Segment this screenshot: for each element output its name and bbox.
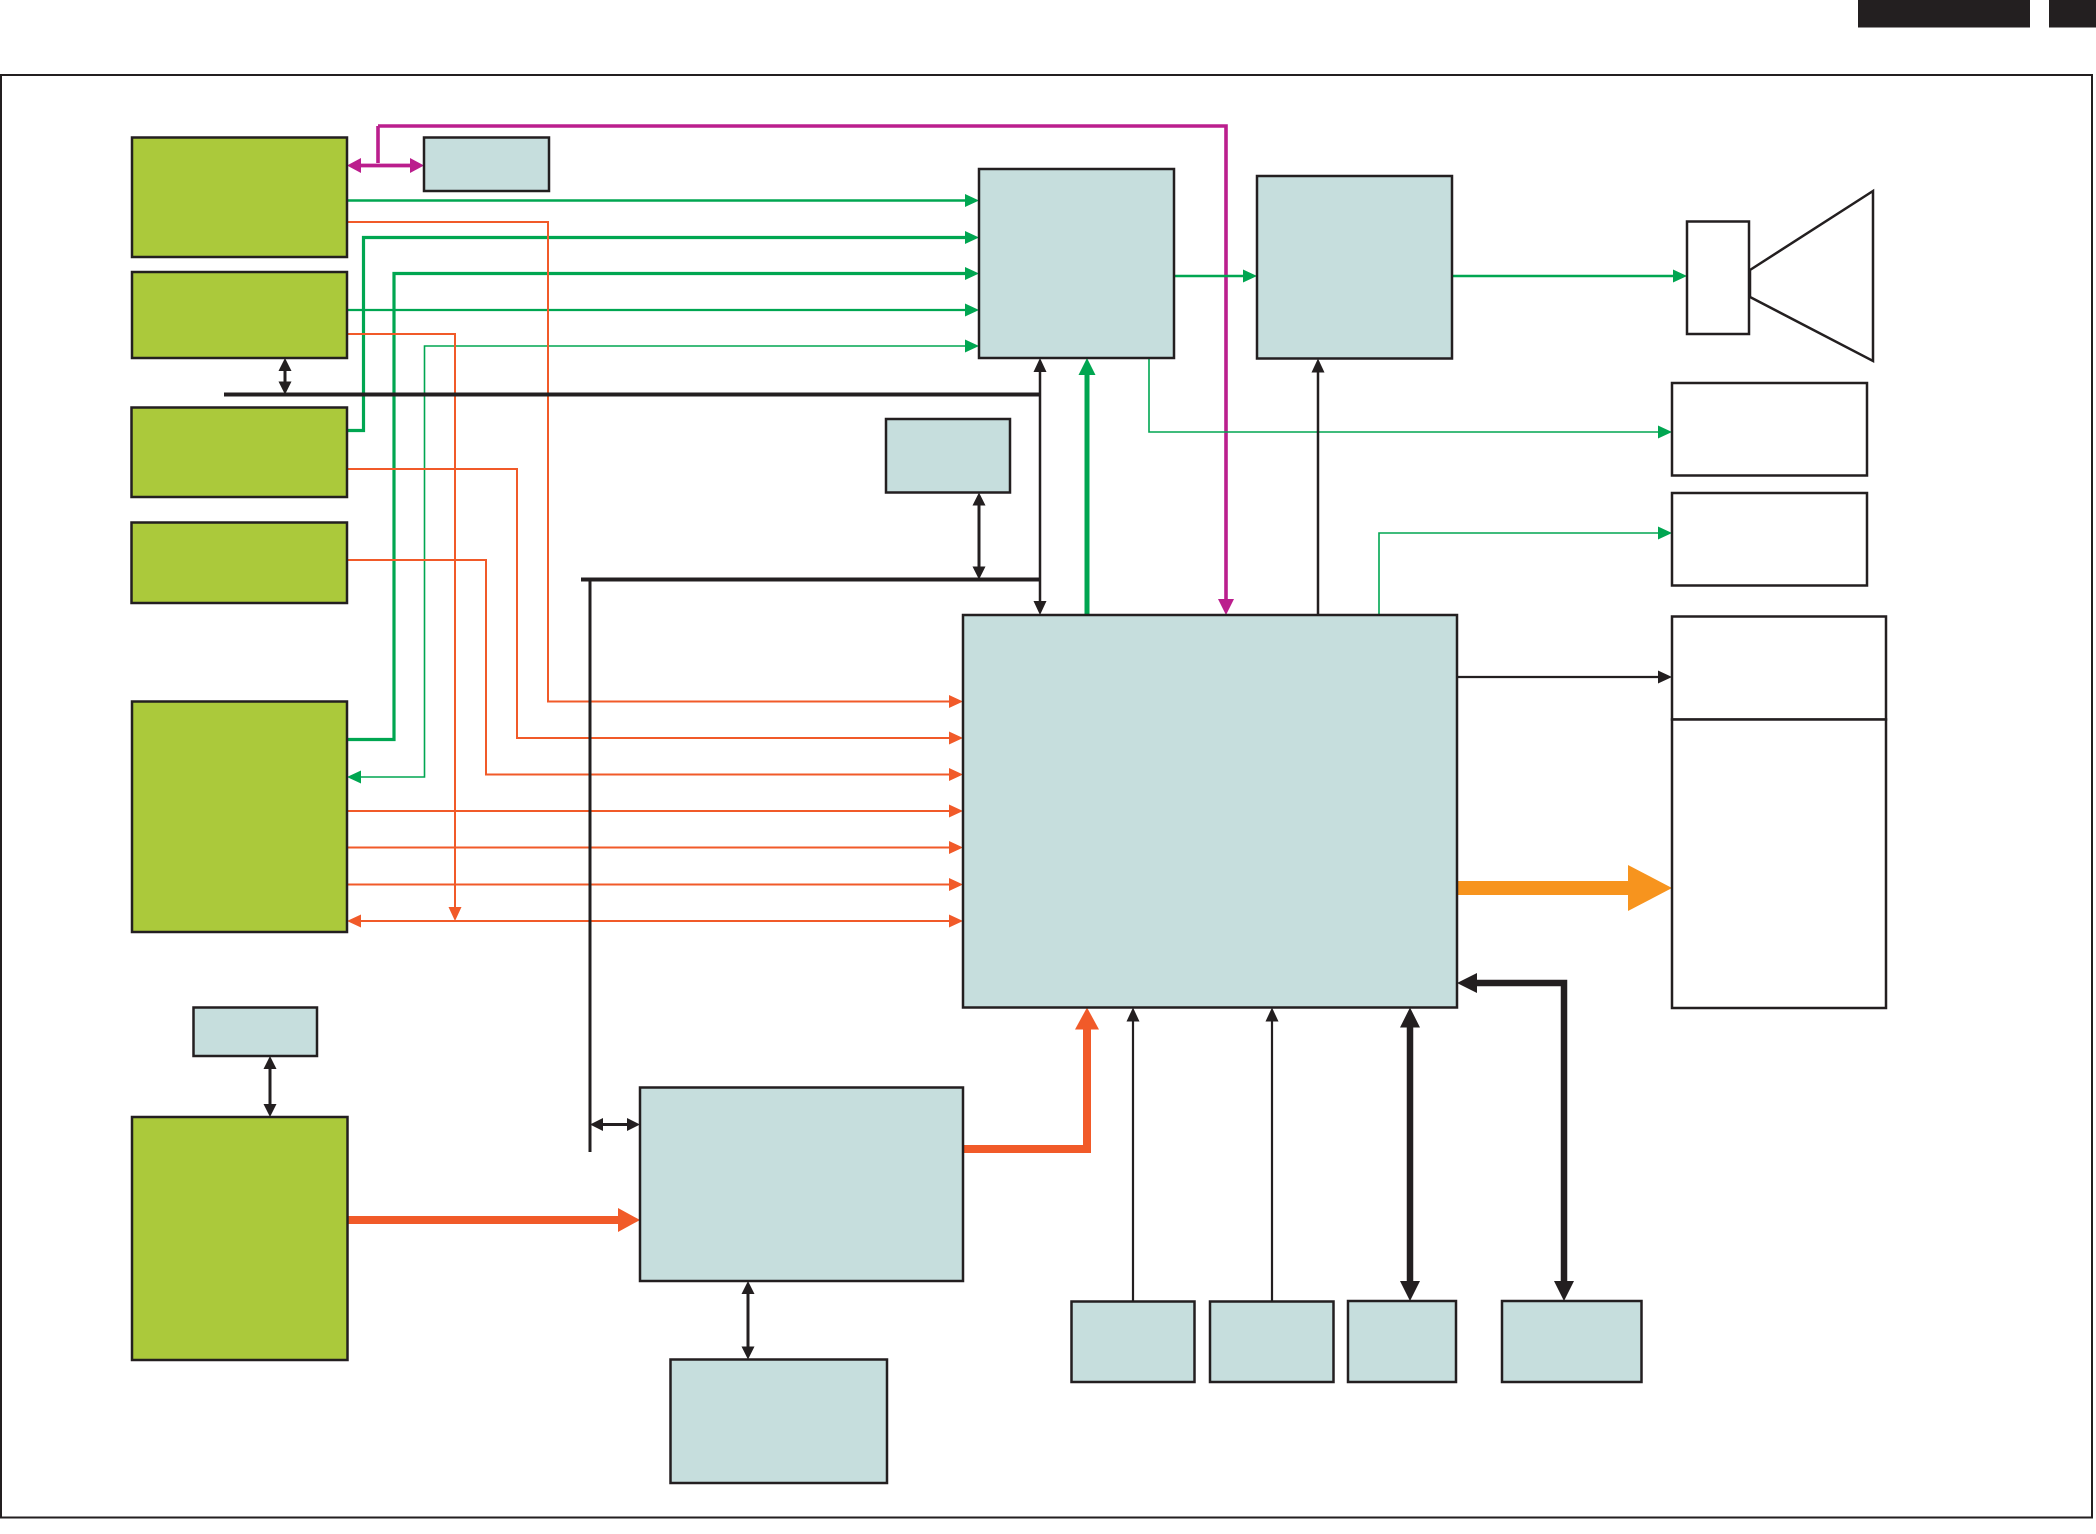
wire orange G5 video 2 to main IC — [347, 847, 953, 849]
block G5 AV input 4 — [132, 702, 347, 933]
speaker body — [1687, 222, 1749, 335]
block B8 standby supply — [671, 1360, 888, 1484]
block B5 main video processor IC — [963, 615, 1457, 1008]
wire green audio G3 to audio switch — [347, 238, 969, 431]
wire orange G2 video junction — [347, 334, 455, 911]
wire orange G5 video bidirectional — [358, 920, 953, 922]
block B11 DDR — [1348, 1301, 1456, 1382]
wire black main IC to amplifier — [1317, 369, 1320, 615]
wire green thick main IC to audio switch — [1085, 371, 1090, 615]
wire green main IC to subwoofer out — [1379, 533, 1662, 615]
wire black power supply to B8 double arrow — [747, 1291, 750, 1350]
wire orange G4 video to main IC — [347, 560, 953, 775]
wire orange G3 video to main IC — [347, 469, 953, 738]
block B10 flash — [1210, 1302, 1334, 1383]
wire black bus to power supply double arrow — [600, 1123, 631, 1126]
wire black I2C bus 2 — [581, 578, 1040, 582]
wire black B6 to G6 double arrow — [269, 1066, 272, 1108]
block B9 SDRAM — [1072, 1302, 1195, 1383]
block G3 AV input 2 — [132, 408, 348, 498]
wire black B9 to main IC — [1132, 1018, 1134, 1302]
block G1 tuner — [132, 138, 347, 258]
wire green switch to headphone out — [1149, 358, 1662, 432]
block B4 tuner IF — [886, 419, 1010, 493]
wire green switch to amplifier — [1174, 275, 1247, 277]
wire black B10 to main IC — [1271, 1018, 1273, 1302]
wire magenta tuner-EEPROM double arrow — [358, 164, 414, 168]
wire green amplifier to speaker — [1452, 275, 1677, 277]
wire green audio return to G5 — [358, 346, 969, 777]
wire black bus drop to power supply — [589, 580, 592, 1153]
wire magenta SCL/SDA top run — [378, 126, 1226, 603]
block B7 power supply — [640, 1088, 963, 1282]
wire orange thick G6 to power supply — [348, 1216, 624, 1224]
block B3 audio amplifier — [1257, 176, 1452, 359]
block G4 AV input 3 — [132, 523, 348, 604]
block W3 panel control — [1672, 617, 1886, 720]
wire green audio G2 to audio switch — [347, 309, 969, 311]
header black bar right — [2049, 0, 2096, 28]
block B2 audio switch — [979, 169, 1174, 358]
wire black bus vertical to audio switch and main IC — [1039, 369, 1042, 605]
wire orange thick power supply to main IC — [963, 1024, 1087, 1149]
wire black I2C bus 1 — [224, 393, 1040, 397]
wire orange G5 video 3 to main IC — [347, 884, 953, 886]
wire black thick main IC B11 double arrow — [1407, 1023, 1414, 1287]
wire orange G1 video to main IC — [347, 222, 953, 702]
block B6 keyboard — [194, 1008, 318, 1057]
header black bar left — [1858, 0, 2030, 28]
block W4 LCD panel — [1672, 720, 1886, 1009]
wire amber thick main IC to panel — [1457, 881, 1639, 895]
block W1 headphone out — [1672, 383, 1867, 476]
wire green audio G5 to audio switch — [347, 274, 969, 740]
wire black G2 to bus double arrow — [284, 368, 287, 385]
block G2 AV input 1 — [132, 272, 347, 358]
block B1 EEPROM — [424, 138, 549, 192]
wire black thick main IC to B12 — [1472, 983, 1564, 1286]
wire black main IC to W3 — [1457, 676, 1662, 678]
block W2 subwoofer out — [1672, 493, 1867, 586]
block G6 AC input — [132, 1117, 348, 1360]
wire orange G5 video 1 to main IC — [347, 810, 953, 812]
speaker horn — [1750, 191, 1873, 361]
wire magenta stub to tuner — [376, 126, 380, 163]
block B12 LVDS buffer — [1502, 1301, 1642, 1382]
wire black B4 to bus double arrow — [978, 502, 981, 570]
wire green audio G1 to audio switch — [347, 199, 969, 201]
